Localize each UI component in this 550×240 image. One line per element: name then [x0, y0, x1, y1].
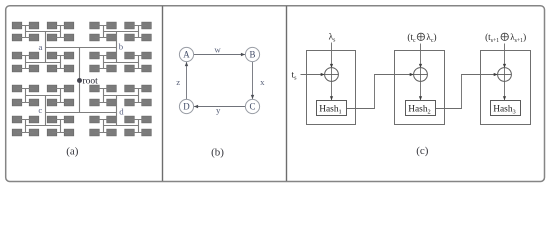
svg-text:d: d	[119, 106, 124, 116]
wire: Hash2 output routed to XOR U3	[436, 73, 498, 109]
graph node B	[245, 47, 259, 61]
leaf cluster row4 col3 with 4 node squares and H wires	[90, 116, 117, 136]
wire: XOR U1 output down into Hash1	[330, 81, 333, 100]
level-2 H wires of top-right quadrant	[104, 32, 139, 63]
hash block Hash1	[317, 101, 347, 116]
wire: top input into XOR U3	[503, 44, 506, 82]
svg-text:(c): (c)	[416, 145, 429, 157]
graph node A	[179, 47, 193, 61]
svg-text:Hash1: Hash1	[319, 105, 341, 116]
stage 1 enclosure box	[307, 51, 356, 125]
hash block Hash3	[491, 101, 521, 116]
stage 3 enclosure box	[481, 51, 531, 125]
leaf cluster row3 col2 with 4 node squares and H wires	[47, 85, 74, 106]
leaf cluster row4 col4 with 4 node squares and H wires	[125, 116, 152, 136]
svg-text:y: y	[216, 105, 221, 115]
svg-text:Hash2: Hash2	[408, 105, 430, 116]
svg-text:(b): (b)	[211, 146, 224, 158]
graph node C	[245, 99, 259, 113]
svg-text:Hash3: Hash3	[493, 105, 515, 116]
wire: top input into XOR U2	[419, 44, 422, 82]
wire: Hash1 output routed to XOR U2	[347, 73, 414, 109]
leaf cluster row2 col3 with 4 node squares and H wires	[90, 52, 117, 72]
svg-text:D: D	[183, 102, 190, 112]
wire/edge z: D to A	[185, 62, 188, 100]
svg-text:A: A	[183, 50, 190, 60]
leaf cluster row4 col2 with 4 node squares and H wires	[47, 116, 74, 136]
svg-text:(a): (a)	[66, 145, 79, 157]
hash block Hash2	[406, 101, 436, 116]
leaf cluster row4 col1 with 4 node squares and H wires	[12, 116, 39, 136]
wire/edge y: C to D	[194, 105, 246, 108]
graph node D	[179, 99, 193, 113]
stage 2 enclosure box	[395, 51, 445, 125]
svg-text:root: root	[83, 77, 99, 87]
svg-text:C: C	[250, 102, 256, 112]
svg-text:x: x	[260, 77, 265, 87]
net label (t_c xor lambda_c) (stage 2 top input)	[407, 32, 436, 44]
wire: XOR U3 output down into Hash3	[503, 81, 506, 100]
leaf cluster row1 col2 with 4 node squares and H wires	[47, 22, 74, 41]
svg-text:b: b	[119, 42, 124, 52]
level-2 H wires of bottom-right quadrant	[104, 96, 139, 126]
wire: XOR U2 output down into Hash2	[419, 81, 422, 100]
leaf cluster row3 col4 with 4 node squares and H wires	[125, 85, 152, 106]
svg-text:w: w	[214, 44, 221, 54]
xor gate U3 (circle-plus)	[498, 68, 512, 82]
svg-text:B: B	[250, 50, 256, 60]
level-3 trunk wire: bottom horizontal	[46, 112, 117, 114]
figure outer border	[6, 6, 545, 182]
level-3 trunk wire: top horizontal	[46, 47, 117, 49]
wire: t_s into XOR U1	[301, 73, 325, 76]
level-2 H wires of top-left quadrant	[26, 32, 61, 63]
panel separator between (a) and (b)	[162, 6, 164, 181]
panel separator between (b) and (c)	[286, 6, 288, 181]
xor gate U1 (circle-plus)	[325, 68, 339, 82]
wire: top input into XOR U1	[330, 43, 333, 82]
svg-text:c: c	[38, 105, 42, 115]
svg-text:z: z	[176, 77, 180, 87]
leaf cluster row3 col1 with 4 node squares and H wires	[12, 85, 39, 106]
leaf cluster row1 col3 with 4 node squares and H wires	[90, 22, 117, 41]
leaf cluster row2 col2 with 4 node squares and H wires	[47, 52, 74, 72]
leaf cluster row1 col4 with 4 node squares and H wires	[125, 22, 152, 41]
root node dot	[77, 78, 82, 83]
leaf cluster row2 col1 with 4 node squares and H wires	[12, 52, 39, 72]
leaf cluster row1 col1 with 4 node squares and H wires	[12, 22, 39, 41]
leaf cluster row3 col3 with 4 node squares and H wires	[90, 85, 117, 106]
level-3 trunk wire: central vertical through root	[79, 48, 81, 113]
net label (t_s+1 xor lambda_s+1) (stage 3 top input)	[485, 32, 526, 44]
svg-text:a: a	[39, 42, 43, 52]
leaf cluster row2 col4 with 4 node squares and H wires	[125, 52, 152, 72]
level-2 H wires of bottom-left quadrant	[26, 96, 61, 126]
wire/edge x: B to C	[251, 62, 254, 100]
xor gate U2 (circle-plus)	[414, 68, 428, 82]
wire/edge w: A to B	[194, 53, 246, 56]
